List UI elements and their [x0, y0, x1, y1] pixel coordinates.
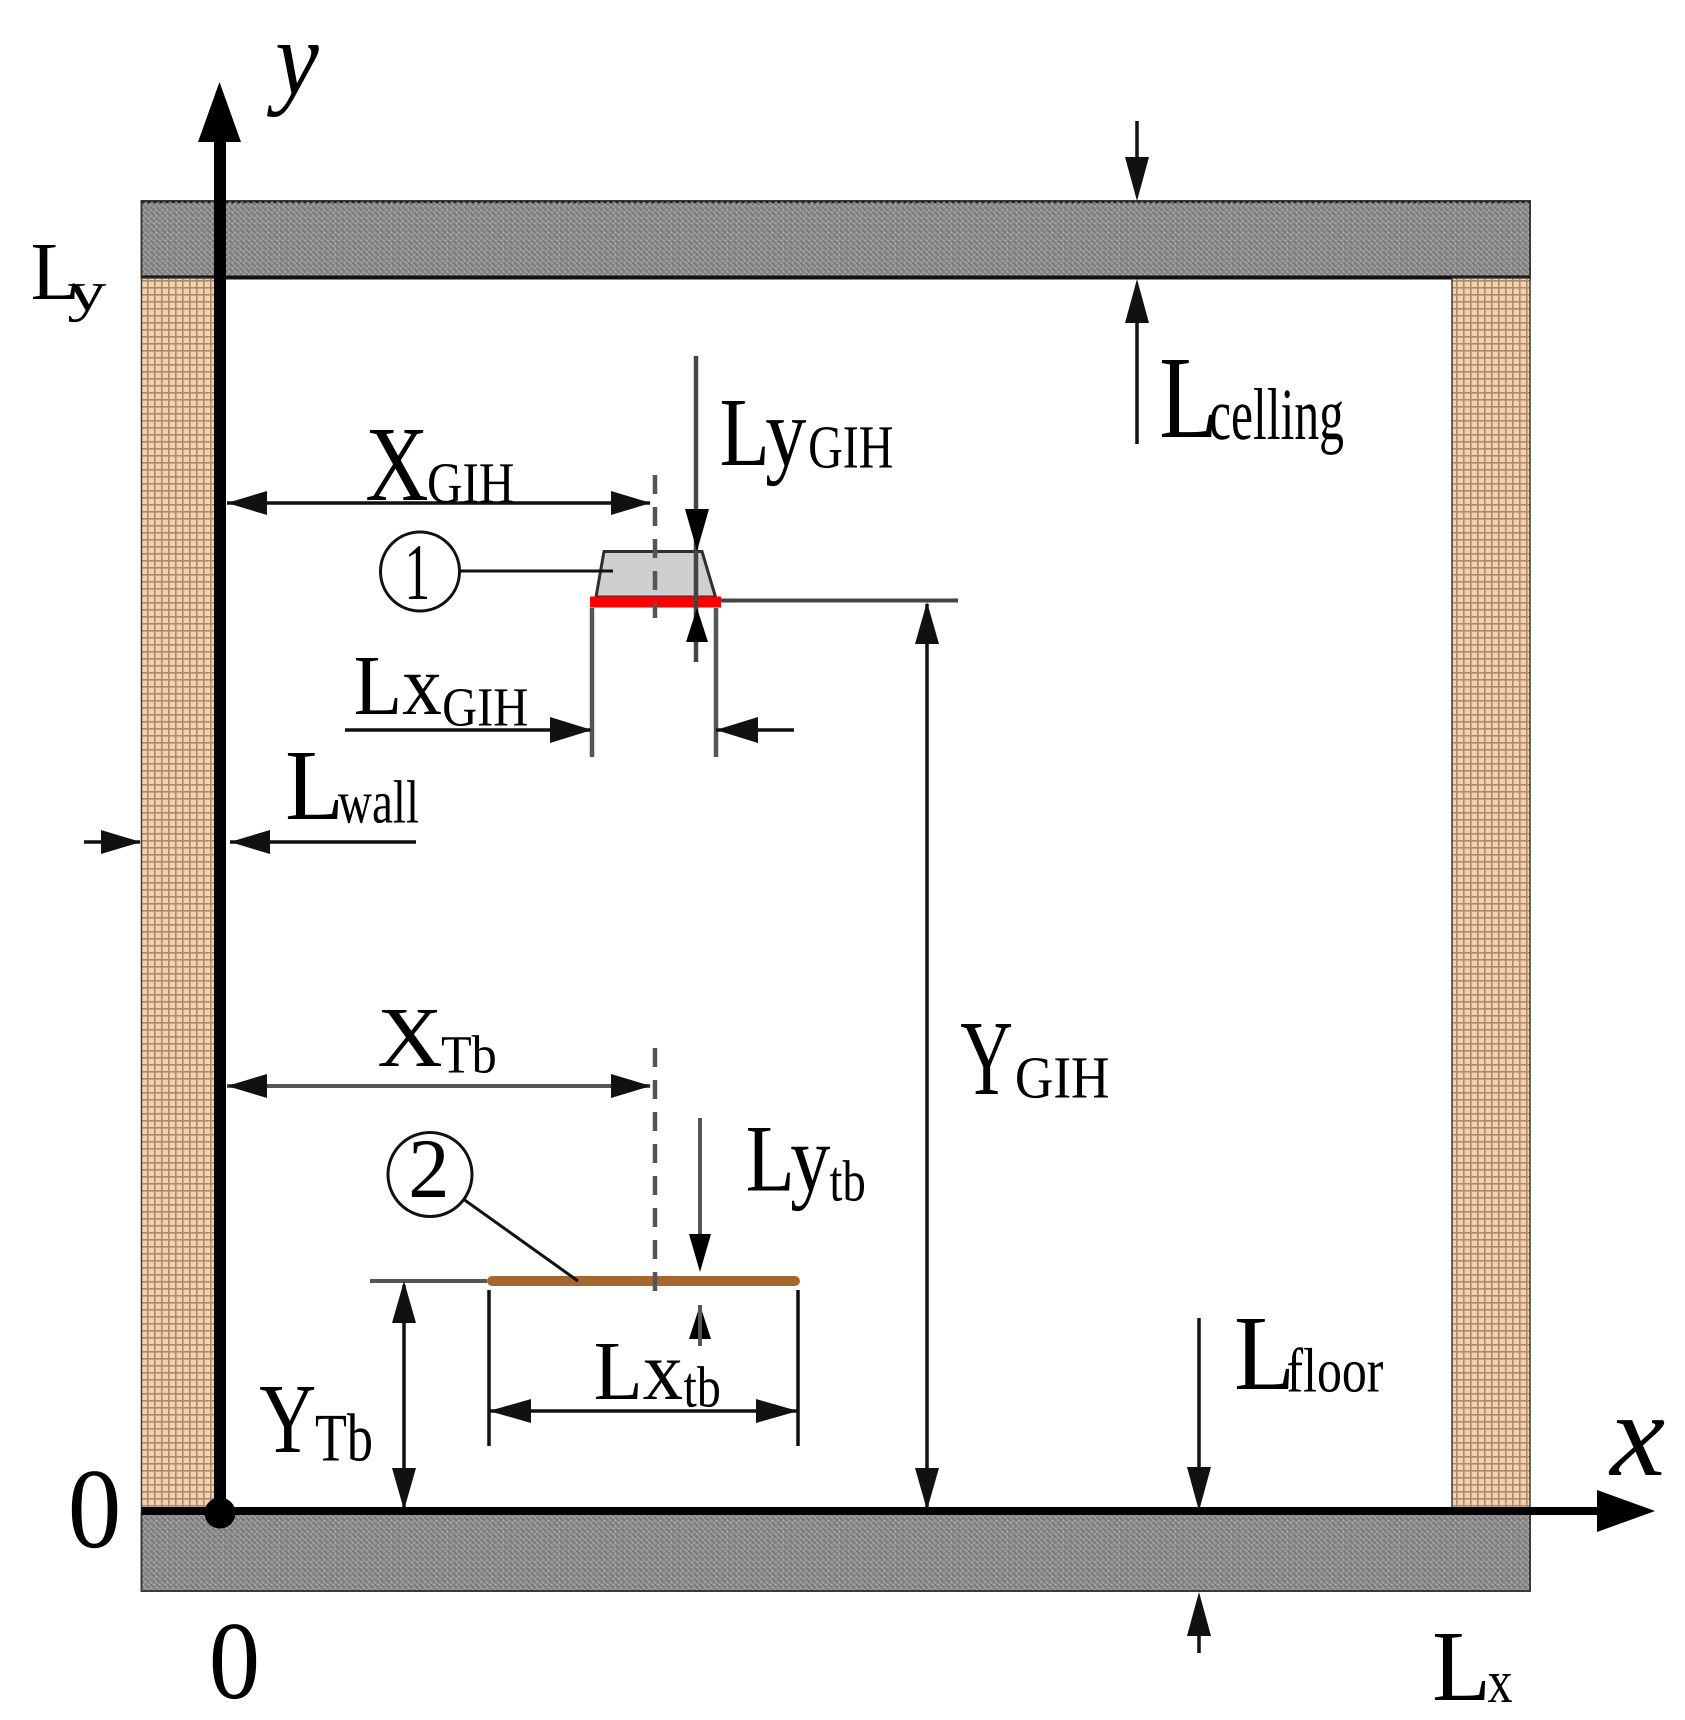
- svg-text:GIH: GIH: [808, 413, 893, 481]
- svg-text:2: 2: [408, 1122, 449, 1216]
- svg-text:wall: wall: [338, 769, 419, 836]
- svg-text:tb: tb: [684, 1354, 721, 1419]
- svg-text:Tb: Tb: [315, 1399, 373, 1475]
- svg-text:X: X: [365, 406, 428, 524]
- svg-text:y: y: [267, 0, 319, 118]
- svg-text:floor: floor: [1287, 1335, 1384, 1405]
- svg-text:GIH: GIH: [442, 676, 528, 737]
- svg-text:GIH: GIH: [1015, 1044, 1110, 1110]
- svg-text:Tb: Tb: [441, 1025, 497, 1085]
- svg-text:x: x: [1608, 1368, 1665, 1501]
- svg-text:Lx: Lx: [354, 639, 442, 733]
- svg-text:X: X: [377, 991, 442, 1085]
- svg-text:Ly: Ly: [720, 379, 807, 487]
- svg-text:x: x: [1488, 1649, 1513, 1716]
- svg-text:Ly: Ly: [746, 1106, 831, 1212]
- svg-text:tb: tb: [830, 1148, 866, 1213]
- svg-text:L: L: [1432, 1610, 1491, 1720]
- svg-text:Y: Y: [259, 1365, 316, 1474]
- svg-text:GIH: GIH: [427, 450, 514, 515]
- svg-text:y: y: [67, 261, 106, 323]
- svg-text:1: 1: [404, 528, 430, 617]
- svg-text:0: 0: [68, 1445, 122, 1572]
- svg-text:0: 0: [209, 1600, 260, 1720]
- svg-text:L: L: [285, 729, 344, 841]
- svg-text:Lx: Lx: [594, 1325, 683, 1418]
- svg-text:celling: celling: [1209, 373, 1344, 455]
- svg-text:Y: Y: [960, 1000, 1013, 1118]
